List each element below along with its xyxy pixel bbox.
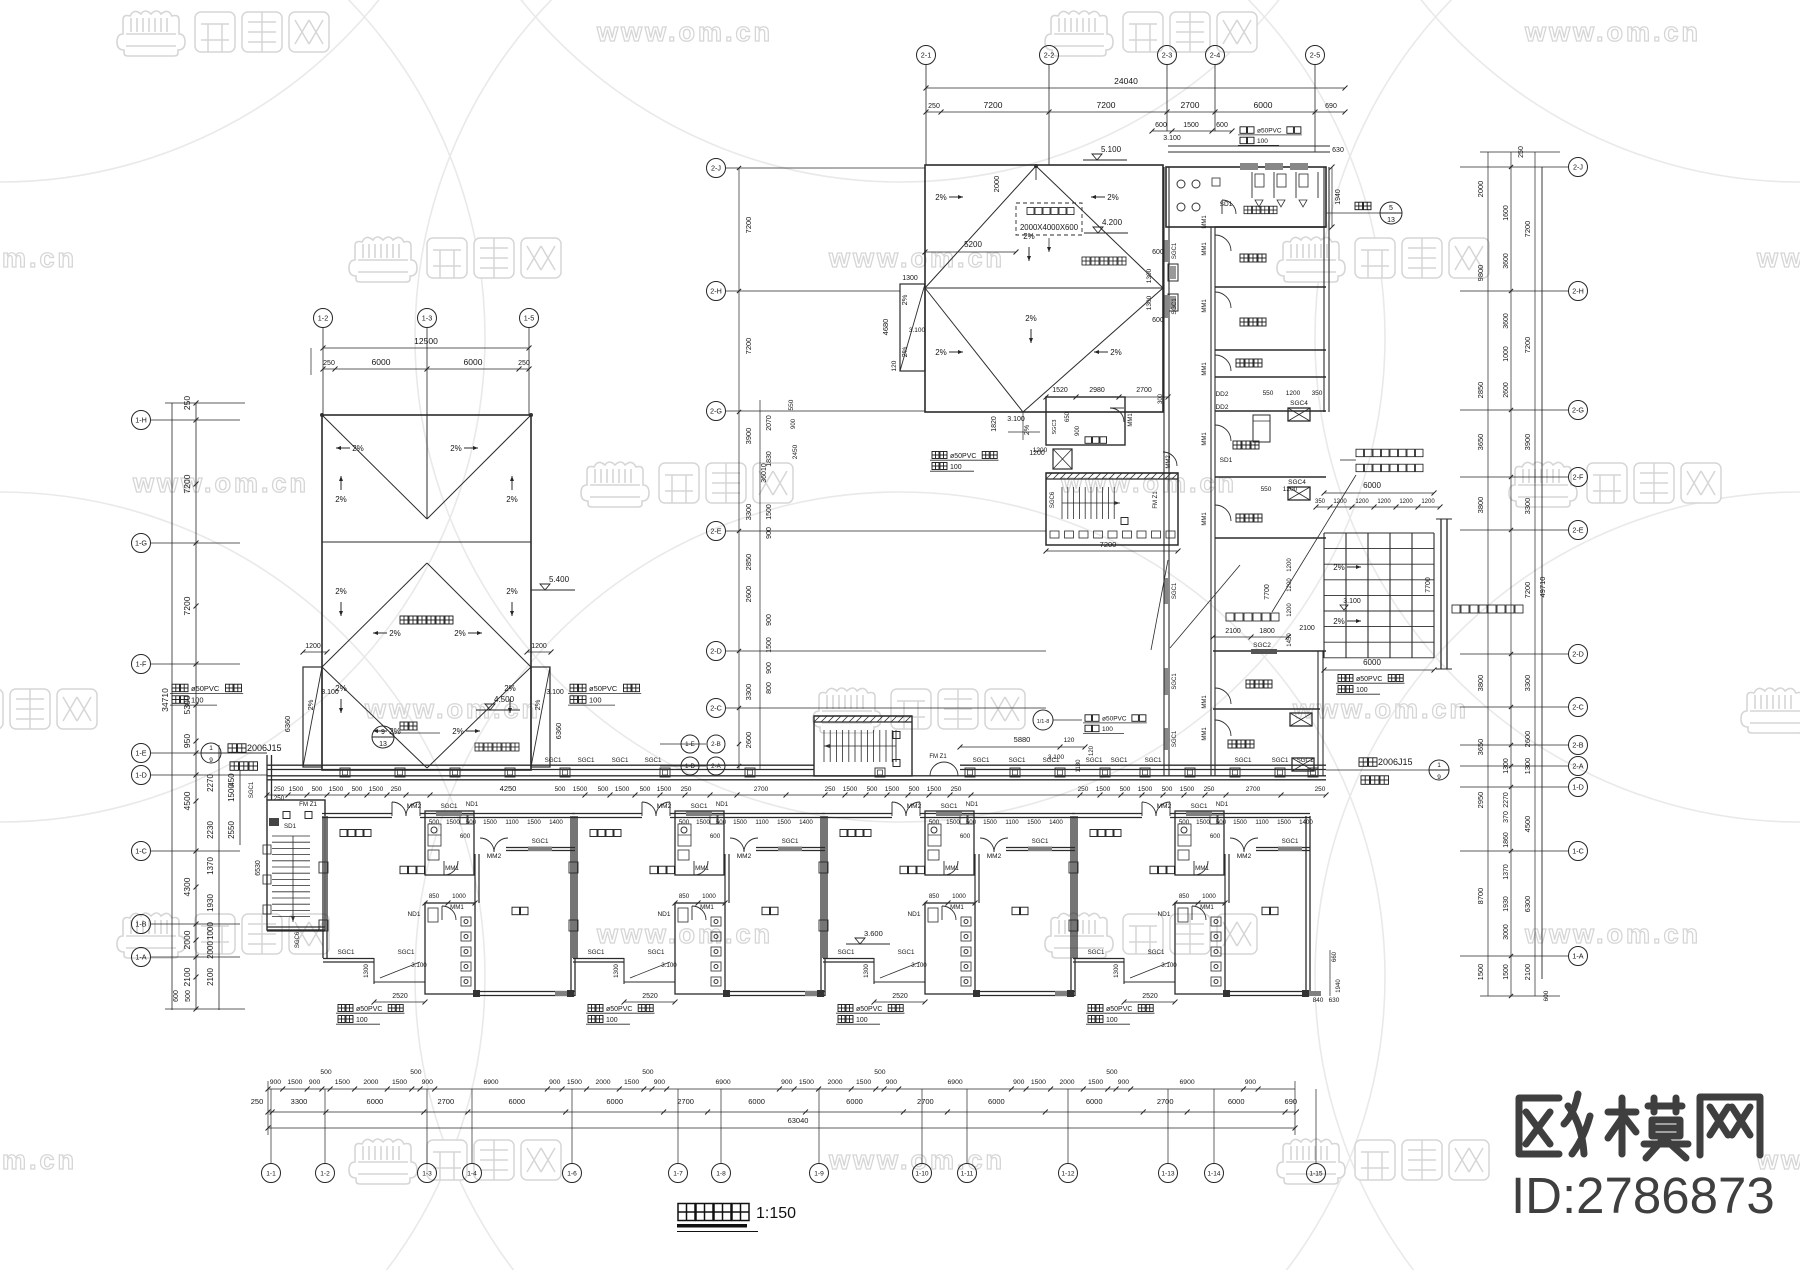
detail ref 5/13 (1326, 202, 1402, 224)
svg-text:2070: 2070 (766, 415, 773, 431)
svg-text:1200: 1200 (1286, 390, 1301, 397)
svg-text:5: 5 (1389, 205, 1393, 212)
svg-text:2%: 2% (1107, 193, 1119, 202)
svg-text:13: 13 (379, 741, 387, 748)
svg-text:1000: 1000 (1202, 893, 1216, 900)
svg-text:600: 600 (1216, 122, 1228, 129)
svg-text:250: 250 (323, 360, 335, 367)
svg-text:100: 100 (856, 1017, 868, 1024)
svg-text:1300: 1300 (1146, 268, 1153, 283)
svg-text:2-3: 2-3 (1162, 51, 1172, 60)
svg-text:600: 600 (710, 833, 721, 840)
svg-text:600: 600 (173, 990, 180, 1002)
svg-text:900: 900 (766, 662, 773, 674)
svg-text:2850: 2850 (1476, 382, 1485, 399)
svg-text:1-1: 1-1 (266, 1170, 276, 1177)
storage room (1033, 387, 1171, 454)
svg-text:1100: 1100 (755, 819, 769, 826)
svg-text:1500: 1500 (856, 1079, 871, 1086)
svg-text:ND1: ND1 (1216, 801, 1229, 808)
svg-text:1-9: 1-9 (814, 1170, 824, 1177)
svg-text:250: 250 (182, 396, 192, 410)
pvc note top (1240, 127, 1254, 134)
wing corridor windows SGC1 (1165, 240, 1179, 262)
svg-text:1500: 1500 (1031, 1079, 1046, 1086)
svg-text:1-D: 1-D (685, 763, 696, 770)
svg-text:2-5: 2-5 (1310, 51, 1320, 60)
door FM door center (929, 754, 958, 776)
svg-text:370: 370 (1503, 811, 1510, 823)
svg-text:MM1: MM1 (445, 865, 459, 872)
svg-text:1500: 1500 (624, 1079, 639, 1086)
svg-text:2%: 2% (935, 193, 947, 202)
svg-text:950: 950 (182, 734, 192, 748)
svg-text:1-C: 1-C (135, 847, 147, 856)
svg-text:1500: 1500 (766, 504, 773, 520)
svg-text:36010: 36010 (761, 463, 768, 483)
svg-text:2%: 2% (389, 727, 401, 736)
svg-text:9800: 9800 (1476, 265, 1485, 282)
svg-text:100: 100 (606, 1017, 618, 1024)
svg-text:500: 500 (640, 786, 651, 793)
svg-text:MM1: MM1 (1202, 727, 1208, 741)
roof fan base dashed (1016, 203, 1082, 252)
svg-text:6000: 6000 (1254, 100, 1273, 110)
svg-text:4500: 4500 (182, 791, 192, 810)
svg-text:600: 600 (1155, 122, 1167, 129)
svg-text:ø50PVC: ø50PVC (1257, 128, 1282, 135)
svg-text:900: 900 (1013, 1079, 1025, 1086)
svg-text:2-A: 2-A (1572, 762, 1583, 771)
svg-text:MM1: MM1 (1195, 865, 1209, 872)
svg-text:1300: 1300 (613, 964, 620, 978)
svg-text:1370: 1370 (206, 857, 215, 875)
svg-text:250: 250 (274, 795, 285, 802)
svg-text:ND1: ND1 (466, 801, 479, 808)
svg-text:6000: 6000 (988, 1097, 1005, 1106)
svg-text:1300: 1300 (1146, 295, 1153, 310)
svg-text:4500: 4500 (1523, 816, 1532, 833)
svg-text:900: 900 (766, 614, 773, 626)
svg-text:3300: 3300 (744, 504, 753, 521)
svg-text:2%: 2% (533, 699, 542, 710)
svg-text:1100: 1100 (505, 819, 519, 826)
svg-text:www.om.cn: www.om.cn (1756, 243, 1800, 273)
svg-text:DD2: DD2 (1215, 404, 1228, 411)
central stair SGC6 (1044, 473, 1181, 554)
svg-text:1500: 1500 (1277, 819, 1291, 826)
courtyard stair (814, 716, 912, 776)
svg-text:120: 120 (891, 360, 898, 371)
svg-text:SD1: SD1 (284, 823, 297, 830)
svg-text:9: 9 (1437, 774, 1441, 781)
svg-text:3900: 3900 (1523, 434, 1532, 451)
svg-text:350: 350 (1315, 499, 1326, 505)
svg-text:6900: 6900 (1180, 1079, 1195, 1086)
svg-text:MM2: MM2 (407, 803, 422, 810)
bottom dim chain row1 (266, 1069, 1296, 1092)
svg-text:3650: 3650 (1476, 739, 1485, 756)
pvc note unit 1 (338, 1005, 353, 1012)
svg-text:500: 500 (716, 819, 727, 826)
svg-text:3900: 3900 (744, 428, 753, 445)
pvc note courtyard (1085, 715, 1099, 722)
svg-text:1-12: 1-12 (1061, 1170, 1075, 1177)
pvc note unit 4 (1088, 1005, 1103, 1012)
svg-text:2-D: 2-D (710, 647, 722, 656)
svg-text:SGC4: SGC4 (1288, 479, 1306, 486)
svg-text:7200: 7200 (1100, 540, 1117, 549)
svg-text:550: 550 (788, 399, 795, 410)
svg-text:3800: 3800 (1476, 497, 1485, 514)
svg-text:7200: 7200 (744, 338, 753, 355)
svg-text:900: 900 (309, 1079, 321, 1086)
svg-text:1930: 1930 (1503, 896, 1510, 912)
svg-text:6530: 6530 (255, 860, 262, 876)
svg-text:2550: 2550 (227, 821, 236, 839)
svg-text:2-C: 2-C (710, 704, 722, 713)
svg-text:MM1: MM1 (945, 865, 959, 872)
svg-text:2-4: 2-4 (1210, 51, 1220, 60)
svg-text:250: 250 (518, 360, 530, 367)
svg-text:1400: 1400 (799, 819, 813, 826)
svg-text:500: 500 (466, 819, 477, 826)
svg-text:1500: 1500 (946, 819, 960, 826)
svg-text:SGC1: SGC1 (338, 949, 355, 956)
svg-text:2%: 2% (1024, 425, 1031, 435)
svg-text:2600: 2600 (744, 732, 753, 749)
svg-text:ø50PVC: ø50PVC (950, 453, 976, 460)
svg-text:2-J: 2-J (1573, 163, 1583, 172)
svg-text:1500: 1500 (567, 1079, 582, 1086)
left window bay (881, 275, 926, 371)
svg-text:9: 9 (381, 729, 385, 736)
svg-text:www.om.cn: www.om.cn (0, 243, 77, 273)
svg-text:1500: 1500 (1138, 786, 1153, 793)
svg-text:900: 900 (654, 1079, 666, 1086)
svg-text:6000: 6000 (508, 1097, 525, 1106)
svg-text:1500: 1500 (696, 819, 710, 826)
svg-text:3.100: 3.100 (411, 962, 427, 969)
svg-text:5200: 5200 (964, 240, 982, 249)
svg-text:250: 250 (1204, 786, 1215, 793)
music room axis circles 1-2 1-3 1-5 (314, 309, 333, 416)
svg-text:SGC2: SGC2 (1253, 642, 1271, 649)
svg-text:2006J15: 2006J15 (247, 743, 282, 753)
svg-text:1500: 1500 (329, 786, 344, 793)
svg-text:1200: 1200 (1287, 603, 1293, 617)
svg-text:7200: 7200 (1523, 582, 1532, 599)
svg-text:1-E: 1-E (135, 749, 146, 758)
svg-text:2%: 2% (450, 444, 462, 453)
svg-text:SGC6: SGC6 (295, 931, 301, 948)
svg-text:800: 800 (766, 682, 773, 694)
svg-text:SGC1: SGC1 (1172, 730, 1178, 747)
svg-text:3.100: 3.100 (1161, 962, 1177, 969)
svg-text:MM1: MM1 (1128, 413, 1134, 427)
svg-text:300: 300 (1158, 393, 1164, 404)
svg-text:1300: 1300 (863, 964, 870, 978)
svg-text:MM2: MM2 (987, 853, 1002, 860)
svg-text:1-D: 1-D (135, 771, 147, 780)
svg-text:900: 900 (270, 1079, 282, 1086)
svg-text:2000X4000X600: 2000X4000X600 (1020, 223, 1079, 232)
svg-text:7700: 7700 (1425, 577, 1432, 593)
svg-text:1200: 1200 (1283, 486, 1298, 493)
svg-text:SGC1: SGC1 (1235, 757, 1252, 764)
svg-text:1500: 1500 (335, 1079, 350, 1086)
svg-text:MM1: MM1 (1202, 512, 1208, 526)
svg-text:SGC1: SGC1 (1172, 298, 1178, 315)
svg-text:1-G: 1-G (135, 539, 147, 548)
svg-text:1500: 1500 (1180, 786, 1195, 793)
svg-text:2000: 2000 (827, 1079, 842, 1086)
door MM2 wing side (1163, 452, 1177, 469)
svg-text:660: 660 (1332, 951, 1338, 962)
svg-text:SGC1: SGC1 (398, 949, 415, 956)
bottom-left roof annotations (991, 412, 1045, 457)
svg-text:3.100: 3.100 (909, 327, 926, 334)
svg-text:2000: 2000 (1476, 181, 1485, 198)
svg-text:3600: 3600 (1503, 253, 1510, 269)
svg-text:3.100: 3.100 (1007, 416, 1025, 423)
svg-text:5.400: 5.400 (549, 575, 570, 584)
left axis grid circles (132, 411, 241, 430)
svg-text:1100: 1100 (1255, 819, 1269, 826)
deformation joint note right (1326, 757, 1449, 784)
svg-text:630: 630 (1332, 147, 1344, 154)
svg-text:500: 500 (679, 819, 690, 826)
svg-text:250: 250 (1078, 786, 1089, 793)
top axis circles 2-1..2-5 (917, 46, 936, 166)
svg-text:1300: 1300 (1523, 758, 1532, 775)
svg-text:2-C: 2-C (1572, 703, 1584, 712)
svg-text:500: 500 (867, 786, 878, 793)
svg-text:7200: 7200 (744, 217, 753, 234)
svg-text:2-F: 2-F (1573, 473, 1584, 482)
svg-text:1300: 1300 (363, 964, 370, 978)
svg-text:6000: 6000 (372, 357, 391, 367)
svg-text:600: 600 (1152, 249, 1164, 256)
svg-text:1180: 1180 (1076, 759, 1082, 773)
svg-text:MM2: MM2 (657, 803, 672, 810)
svg-text:7200: 7200 (984, 100, 1003, 110)
svg-text:900: 900 (549, 1079, 561, 1086)
svg-text:2520: 2520 (1142, 993, 1158, 1000)
svg-text:2-J: 2-J (711, 164, 721, 173)
svg-text:SGC1: SGC1 (1148, 949, 1165, 956)
right dim chains (1476, 146, 1560, 1001)
svg-text:2700: 2700 (437, 1097, 454, 1106)
svg-text:2%: 2% (335, 684, 347, 693)
svg-text:500: 500 (1216, 819, 1227, 826)
svg-text:2270: 2270 (206, 774, 215, 792)
svg-text:2%: 2% (452, 727, 464, 736)
svg-text:SGC1: SGC1 (1191, 803, 1208, 810)
svg-text:2%: 2% (900, 294, 909, 305)
svg-text:900: 900 (781, 1079, 793, 1086)
svg-text:www.om.cn: www.om.cn (596, 919, 773, 949)
svg-text:2600: 2600 (1523, 731, 1532, 748)
svg-text:1200: 1200 (1399, 499, 1413, 505)
svg-text:2-E: 2-E (1572, 526, 1583, 535)
svg-text:1500: 1500 (1096, 786, 1111, 793)
svg-text:2700: 2700 (1181, 100, 1200, 110)
svg-text:3300: 3300 (291, 1097, 308, 1106)
deformation joint note left (201, 743, 282, 770)
svg-text:SGC1: SGC1 (1297, 757, 1314, 764)
svg-text:500: 500 (598, 786, 609, 793)
svg-text:7200: 7200 (182, 596, 192, 615)
svg-text:1-11: 1-11 (961, 1170, 974, 1177)
svg-text:2850: 2850 (744, 554, 753, 571)
svg-text:ø50PVC: ø50PVC (856, 1006, 882, 1013)
svg-text:100: 100 (1106, 1017, 1118, 1024)
structural note (1082, 257, 1126, 265)
svg-text:600: 600 (1152, 317, 1164, 324)
svg-text:2%: 2% (506, 495, 518, 504)
svg-text:2%: 2% (454, 629, 466, 638)
svg-text:250: 250 (951, 786, 962, 793)
svg-text:1500: 1500 (483, 819, 497, 826)
svg-text:250: 250 (928, 103, 940, 110)
svg-text:650: 650 (1065, 411, 1071, 422)
svg-text:2-2: 2-2 (1044, 51, 1054, 60)
svg-text:MM1: MM1 (1202, 299, 1208, 313)
svg-text:1500: 1500 (369, 786, 384, 793)
svg-text:SD1: SD1 (1220, 201, 1233, 208)
svg-text:SGC1: SGC1 (545, 757, 562, 764)
svg-text:850: 850 (929, 893, 940, 900)
svg-text:6000: 6000 (367, 1097, 384, 1106)
structural note (475, 743, 519, 751)
svg-text:ND1: ND1 (907, 911, 920, 918)
svg-text:1500: 1500 (1233, 819, 1247, 826)
svg-text:900: 900 (1118, 1079, 1130, 1086)
secondary vendor note (1452, 605, 1523, 613)
left dimension chains (160, 396, 245, 1012)
svg-text:6900: 6900 (948, 1079, 963, 1086)
svg-text:3.100: 3.100 (911, 962, 927, 969)
svg-text:500: 500 (352, 786, 363, 793)
svg-text:1200: 1200 (1287, 558, 1293, 572)
pvc note left (172, 684, 188, 692)
svg-text:2-1: 2-1 (921, 51, 931, 60)
svg-text:1500: 1500 (615, 786, 630, 793)
top dim 24040 (924, 76, 1348, 142)
svg-text:2700: 2700 (917, 1097, 934, 1106)
svg-text:2520: 2520 (392, 993, 408, 1000)
svg-text:6000: 6000 (1363, 658, 1381, 667)
svg-text:SGC1: SGC1 (1086, 757, 1103, 764)
mid axis bubbles (660, 735, 725, 775)
svg-text:9: 9 (209, 757, 213, 764)
svg-text:SGC1: SGC1 (1172, 582, 1178, 599)
svg-text:1300: 1300 (1503, 758, 1510, 774)
svg-text:630: 630 (1329, 997, 1340, 1004)
svg-text:1-10: 1-10 (915, 1170, 929, 1177)
svg-text:600: 600 (1210, 833, 1221, 840)
svg-text:2%: 2% (352, 444, 364, 453)
svg-text:2%: 2% (1333, 617, 1345, 626)
svg-text:1-A: 1-A (1572, 952, 1583, 961)
right edge windows (1146, 249, 1178, 324)
svg-text:1-E: 1-E (685, 741, 695, 748)
left stair block (249, 781, 325, 948)
svg-text:100: 100 (950, 464, 962, 471)
svg-text:2950: 2950 (1476, 792, 1485, 809)
svg-text:2520: 2520 (642, 993, 658, 1000)
pergola dims (1314, 481, 1443, 673)
svg-text:24040: 24040 (1114, 76, 1138, 86)
toilet room (1166, 146, 1344, 230)
svg-text:2000: 2000 (206, 941, 215, 959)
svg-text:1500: 1500 (227, 784, 236, 802)
svg-text:900: 900 (886, 1079, 898, 1086)
svg-text:500: 500 (929, 819, 940, 826)
svg-text:2%: 2% (306, 699, 315, 710)
svg-text:1500: 1500 (289, 786, 304, 793)
svg-text:1-8: 1-8 (716, 1170, 726, 1177)
svg-text:34710: 34710 (160, 688, 170, 712)
svg-text:1800: 1800 (1259, 628, 1275, 635)
svg-text:2%: 2% (1110, 348, 1122, 357)
svg-text:2%: 2% (335, 587, 347, 596)
svg-text:100: 100 (1102, 726, 1113, 733)
svg-text:120: 120 (1064, 737, 1075, 744)
svg-text:SGC1: SGC1 (588, 949, 605, 956)
svg-text:250: 250 (391, 786, 402, 793)
svg-text:SGC1: SGC1 (898, 949, 915, 956)
svg-text:FM Z1: FM Z1 (929, 754, 947, 760)
svg-text:100: 100 (191, 696, 204, 705)
svg-text:SGC1: SGC1 (441, 803, 458, 810)
svg-text:1450: 1450 (1287, 633, 1293, 647)
svg-text:500: 500 (1120, 786, 1131, 793)
svg-text:1-C: 1-C (1572, 847, 1584, 856)
svg-text:350: 350 (1312, 390, 1323, 397)
svg-text:1500: 1500 (766, 637, 773, 653)
svg-text:2000: 2000 (595, 1079, 610, 1086)
5880 dims near courtyard (958, 735, 1096, 772)
svg-text:500: 500 (410, 1069, 422, 1076)
svg-text:5.100: 5.100 (1101, 145, 1122, 154)
svg-text:ND1: ND1 (966, 801, 979, 808)
right axis circles (1460, 158, 1588, 177)
svg-text:2000: 2000 (1059, 1079, 1074, 1086)
pvc note right (570, 684, 586, 692)
level 4.200 (1084, 218, 1128, 233)
svg-text:850: 850 (1179, 893, 1190, 900)
svg-text:ND1: ND1 (1157, 911, 1170, 918)
roof slopes (935, 193, 1122, 357)
svg-text:8700: 8700 (1476, 888, 1485, 905)
svg-text:1300: 1300 (1113, 964, 1120, 978)
svg-text:1200: 1200 (1355, 499, 1369, 505)
svg-text:100: 100 (1356, 687, 1368, 694)
svg-text:2-B: 2-B (711, 741, 721, 748)
svg-text:www.om.cn: www.om.cn (1524, 919, 1701, 949)
svg-text:2700: 2700 (1136, 387, 1152, 394)
svg-text:www.om.cn: www.om.cn (596, 17, 773, 47)
svg-text:ND1: ND1 (657, 911, 670, 918)
svg-text:DD2: DD2 (1215, 391, 1228, 398)
svg-text:1200: 1200 (1033, 447, 1048, 454)
svg-text:3.100: 3.100 (661, 962, 677, 969)
svg-text:6000: 6000 (464, 357, 483, 367)
svg-text:500: 500 (429, 819, 440, 826)
svg-text:2520: 2520 (892, 993, 908, 1000)
